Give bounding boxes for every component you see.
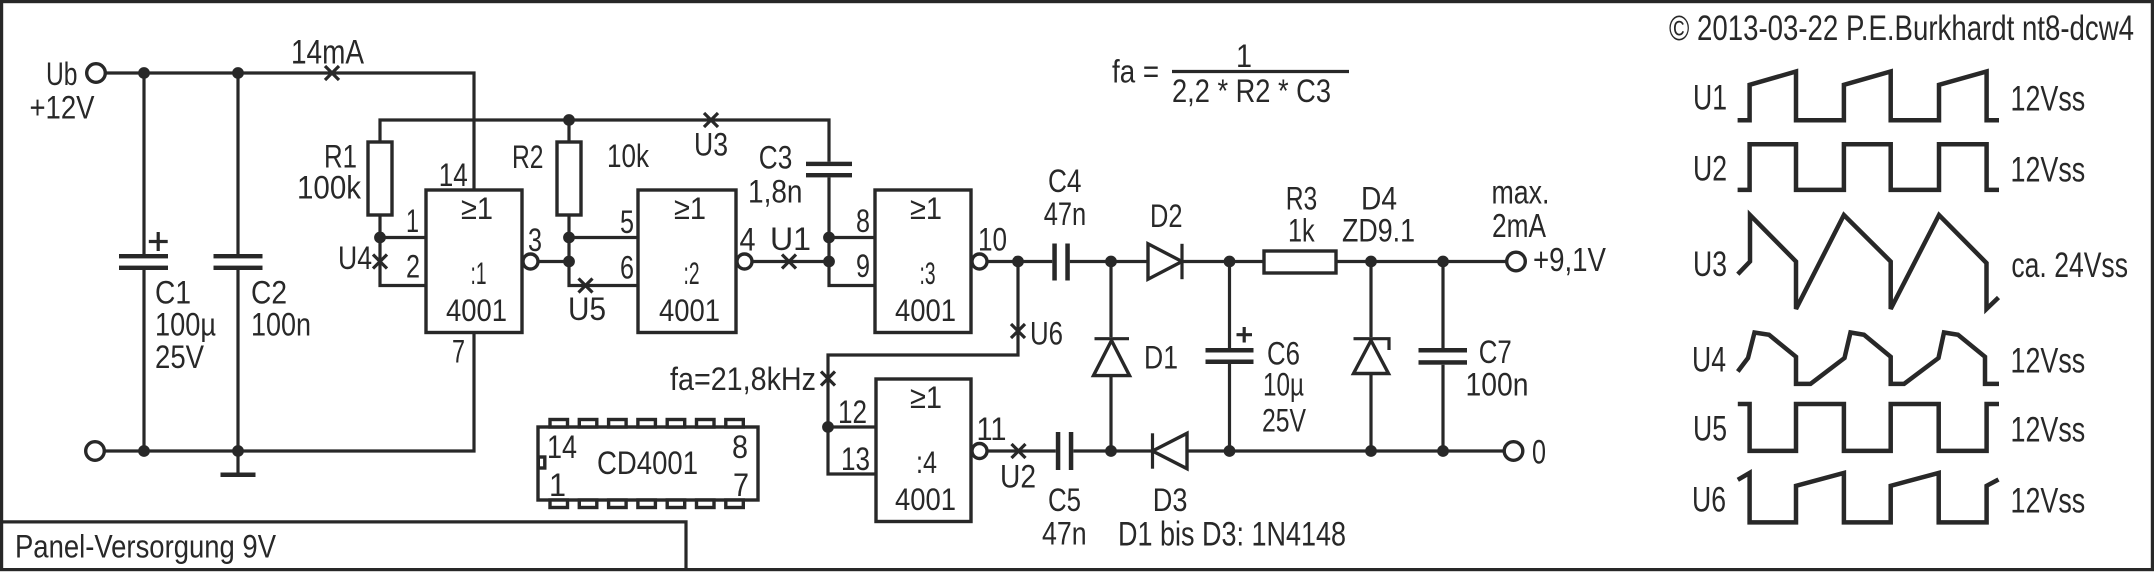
junction dot C6 top — [1224, 256, 1236, 268]
svg-text:D3: D3 — [1153, 482, 1188, 518]
waveform U4 trace — [1738, 333, 1999, 384]
junction dot D1 bottom — [1105, 445, 1117, 457]
svg-text:CD4001: CD4001 — [597, 445, 698, 481]
svg-text:1,8n: 1,8n — [748, 174, 803, 210]
wire C5 to D3 — [1073, 449, 1152, 452]
svg-text:12Vss: 12Vss — [2011, 410, 2086, 449]
junction dot U6 branch — [1012, 256, 1024, 268]
svg-text:≥1: ≥1 — [910, 379, 942, 415]
svg-text:U1: U1 — [1693, 79, 1727, 118]
svg-text:+12V: +12V — [30, 90, 96, 126]
svg-text:D2: D2 — [1150, 198, 1183, 234]
terminal Ub +12V — [87, 64, 106, 83]
NOR gate U:4 box — [876, 379, 971, 522]
wire C1 lower lead — [142, 270, 145, 451]
junction dot C7 bottom — [1437, 445, 1449, 457]
wire pin 10 to C4 — [987, 260, 1052, 263]
svg-text::3: :3 — [920, 255, 936, 291]
wire pin 1 — [380, 236, 426, 239]
gate :3 output bubble pin 10 — [972, 254, 987, 269]
svg-text:≥1: ≥1 — [910, 190, 942, 226]
ground symbol — [236, 451, 239, 473]
svg-text:≥1: ≥1 — [461, 190, 493, 226]
wire pin 2 branch — [380, 238, 426, 286]
svg-text:Panel-Versorgung 9V: Panel-Versorgung 9V — [15, 529, 277, 565]
svg-text:1: 1 — [549, 467, 566, 503]
svg-text:U1: U1 — [770, 221, 811, 257]
waveform U5 trace — [1738, 404, 1999, 451]
junction dot D1 top — [1105, 256, 1117, 268]
measuring point 14mA cross — [325, 66, 339, 80]
svg-text:≥1: ≥1 — [674, 190, 706, 226]
waveform U1 trace — [1738, 72, 1999, 121]
waveform U3 trace — [1738, 215, 1999, 309]
svg-text:U4: U4 — [1692, 341, 1726, 380]
C1 polarity plus — [149, 232, 168, 251]
svg-text:47n: 47n — [1042, 516, 1087, 552]
junction dot D4 top — [1365, 256, 1377, 268]
capacitor C3 plates — [806, 162, 852, 166]
svg-text::1: :1 — [471, 255, 487, 291]
svg-text:7: 7 — [733, 467, 749, 503]
svg-text:Ub: Ub — [46, 56, 78, 92]
C6 polarity plus — [1237, 327, 1253, 343]
junction dot rail C1 — [138, 445, 150, 457]
svg-text:14: 14 — [547, 429, 577, 465]
NOR gate U:2 box — [638, 190, 736, 333]
capacitor C4 plates — [1052, 244, 1057, 281]
svg-text:U3: U3 — [1693, 245, 1727, 284]
wire D2 to R3 — [1182, 260, 1264, 263]
wire C1 upper lead — [142, 73, 145, 254]
svg-text:fa =: fa = — [1112, 54, 1159, 90]
svg-text:C2: C2 — [251, 275, 287, 311]
resistor R1 — [368, 142, 392, 215]
svg-text:C3: C3 — [759, 139, 793, 175]
svg-text:max.: max. — [1492, 174, 1550, 211]
wire pin 11 to C5 — [987, 449, 1056, 452]
waveform U2 trace — [1738, 144, 1999, 190]
svg-text:12Vss: 12Vss — [2011, 481, 2086, 520]
svg-text:2mA: 2mA — [1492, 207, 1546, 244]
measuring point U4 cross — [373, 255, 387, 269]
measuring point U5 cross — [579, 279, 593, 293]
svg-text:U3: U3 — [694, 127, 728, 163]
svg-text:C5: C5 — [1048, 482, 1081, 518]
capacitor C7 — [1441, 262, 1444, 349]
svg-text:7: 7 — [452, 334, 465, 370]
junction dot pin 12 — [822, 421, 834, 433]
waveform U6 trace — [1738, 473, 1999, 523]
svg-text:D4: D4 — [1361, 180, 1397, 216]
svg-text:U4: U4 — [338, 240, 372, 276]
svg-text:0: 0 — [1532, 434, 1546, 472]
measuring point U3 cross — [704, 113, 718, 127]
svg-text:5: 5 — [620, 204, 634, 240]
svg-text:© 2013-03-22 P.E.Burkhardt nt8: © 2013-03-22 P.E.Burkhardt nt8-dcw4 — [1669, 9, 2134, 48]
wire pin 12 — [828, 425, 876, 428]
wire C2 upper lead — [236, 73, 239, 254]
capacitor C2 plates — [214, 254, 263, 258]
zener diode D4 vertical — [1369, 262, 1372, 338]
capacitor C1 plates — [119, 254, 168, 258]
diode D2 — [1148, 244, 1182, 279]
measuring point U2 cross — [1012, 444, 1026, 458]
svg-text:U6: U6 — [1030, 316, 1063, 352]
svg-text:4001: 4001 — [895, 481, 956, 517]
svg-text:1k: 1k — [1288, 212, 1315, 248]
wire C4 to D2 — [1070, 260, 1148, 263]
svg-text:D1 bis D3: 1N4148: D1 bis D3: 1N4148 — [1118, 516, 1346, 554]
svg-text:4001: 4001 — [895, 292, 956, 328]
svg-text:47n: 47n — [1044, 196, 1087, 232]
svg-text:3: 3 — [528, 222, 542, 258]
junction dot C1 top — [138, 67, 150, 79]
svg-text:8: 8 — [856, 203, 870, 239]
wire pin 8 — [829, 236, 875, 239]
measuring point U1 cross — [782, 255, 796, 269]
package pins top — [550, 420, 568, 428]
svg-text:14: 14 — [439, 157, 468, 193]
wire R1 top lead and node X rail to C3 — [380, 120, 829, 162]
svg-text:6: 6 — [620, 250, 634, 286]
junction dot rail C2 — [232, 445, 244, 457]
package pins bottom — [550, 500, 568, 508]
svg-text:12Vss: 12Vss — [2011, 342, 2086, 381]
package notch — [538, 457, 545, 468]
measuring point fa cross — [821, 372, 835, 386]
svg-text:ca. 24Vss: ca. 24Vss — [2011, 246, 2128, 285]
svg-text:D1: D1 — [1144, 340, 1178, 376]
wire R3 to terminal — [1336, 260, 1507, 263]
junction dot C7 top — [1437, 256, 1449, 268]
svg-text:U2: U2 — [1693, 150, 1727, 189]
svg-text:12Vss: 12Vss — [2011, 80, 2086, 119]
svg-text:25V: 25V — [1262, 402, 1307, 438]
gate :4 output bubble pin 11 — [972, 444, 987, 459]
wire pin 13 branch — [828, 427, 876, 474]
capacitor C5 plates — [1056, 432, 1061, 470]
svg-text:1: 1 — [406, 203, 419, 239]
wire pin 3 to node — [538, 260, 569, 263]
junction dot C6 bottom — [1224, 445, 1236, 457]
resistor R3 — [1264, 251, 1336, 273]
svg-text:U5: U5 — [1693, 409, 1727, 448]
gate :2 output bubble pin 4 — [737, 254, 752, 269]
svg-text:10µ: 10µ — [1263, 367, 1304, 403]
junction dot R2 top on node X — [563, 114, 575, 126]
junction dot node pin3 — [563, 256, 575, 268]
svg-text:25V: 25V — [155, 339, 205, 375]
diode D3 — [1151, 433, 1154, 468]
svg-text:100n: 100n — [251, 307, 311, 343]
wire C3 bottom to gate 3 inputs — [829, 177, 875, 285]
measuring point U6 cross — [1011, 324, 1025, 338]
terminal 0V left — [86, 442, 105, 461]
svg-text:R3: R3 — [1286, 180, 1318, 216]
svg-text:14mA: 14mA — [291, 34, 364, 72]
junction dot pin9 node — [823, 256, 835, 268]
svg-text:C1: C1 — [155, 275, 191, 311]
terminal 0 — [1504, 442, 1523, 461]
wire node vertical + pin 6 branch — [569, 238, 638, 286]
svg-text:12Vss: 12Vss — [2011, 151, 2086, 190]
terminal +9,1V — [1507, 252, 1526, 271]
wire R2 top lead — [567, 120, 570, 142]
wire U6 feedback to gate 4 inputs — [828, 262, 1018, 428]
svg-text:U6: U6 — [1692, 480, 1726, 519]
gate :1 output bubble pin 3 — [523, 254, 538, 269]
capacitor C6 electrolytic — [1228, 262, 1231, 349]
junction dot node pin5 — [563, 232, 575, 244]
svg-text:2,2 * R2 * C3: 2,2 * R2 * C3 — [1172, 73, 1331, 109]
wire C2 lower lead — [236, 270, 239, 451]
wire pin 4 to C3 node — [752, 260, 829, 263]
resistor R2 — [557, 142, 581, 215]
svg-text:U2: U2 — [1000, 459, 1036, 495]
junction dot C2 top — [232, 67, 244, 79]
NOR gate U:3 box — [875, 190, 971, 333]
svg-text:4001: 4001 — [659, 292, 720, 328]
diode D1 vertical — [1109, 262, 1112, 338]
wire bottom rail left — [105, 333, 475, 451]
svg-text:100µ: 100µ — [155, 307, 216, 343]
svg-text:1: 1 — [1236, 38, 1252, 74]
junction dot node pin1 — [374, 232, 386, 244]
svg-text:9: 9 — [856, 248, 870, 284]
svg-text:C4: C4 — [1048, 163, 1082, 199]
svg-text::2: :2 — [684, 255, 700, 291]
svg-text:+9,1V: +9,1V — [1533, 241, 1606, 278]
svg-text:10: 10 — [978, 222, 1007, 258]
svg-text:2: 2 — [406, 249, 420, 285]
svg-text:U5: U5 — [568, 291, 606, 327]
svg-text:100k: 100k — [297, 170, 362, 206]
wire +12V rail to pin 14 — [106, 73, 475, 190]
svg-text:4: 4 — [740, 221, 756, 257]
svg-text:11: 11 — [977, 411, 1007, 447]
NOR gate U:1 box — [426, 190, 522, 333]
svg-text:ZD9.1: ZD9.1 — [1342, 212, 1415, 248]
svg-text:100n: 100n — [1466, 367, 1529, 403]
IC package CD4001 body — [538, 427, 758, 500]
svg-text::4: :4 — [916, 444, 937, 480]
svg-text:R2: R2 — [512, 139, 544, 175]
svg-text:fa=21,8kHz: fa=21,8kHz — [670, 361, 816, 397]
svg-text:4001: 4001 — [446, 292, 507, 328]
wire D3 to terminal 0 — [1187, 449, 1505, 452]
formula fraction bar — [1172, 70, 1349, 73]
svg-text:12: 12 — [838, 394, 867, 430]
junction dot D4 bottom — [1365, 445, 1377, 457]
svg-text:13: 13 — [841, 441, 870, 477]
junction dot pin8 node — [823, 232, 835, 244]
wire R2 bottom lead — [567, 215, 570, 238]
wire R1 bottom lead — [378, 215, 381, 238]
title block box — [2, 522, 686, 568]
wire pin 5 — [569, 236, 638, 239]
svg-text:8: 8 — [732, 429, 748, 465]
svg-text:10k: 10k — [607, 138, 650, 174]
svg-text:C7: C7 — [1479, 334, 1512, 370]
